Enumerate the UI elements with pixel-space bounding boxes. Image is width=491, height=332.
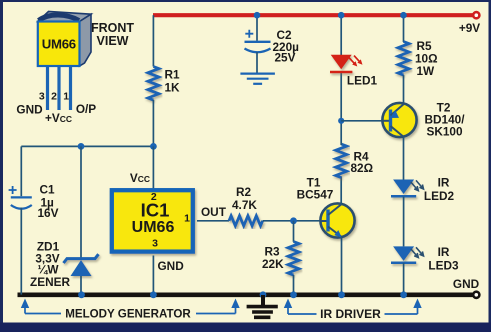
svg-text:FRONT: FRONT xyxy=(91,21,134,35)
node ZD1 top xyxy=(78,143,85,150)
ground symbol C2 xyxy=(240,74,275,84)
wire IC1 GND xyxy=(152,256,154,295)
svg-text:GND: GND xyxy=(453,277,480,291)
transistor T2 BD140/SK100 xyxy=(382,103,416,137)
svg-text:1: 1 xyxy=(184,213,190,225)
wire R1 to node xyxy=(152,100,154,146)
wire C1 bottom xyxy=(20,208,22,295)
node R3 ground xyxy=(290,291,297,298)
zener diode ZD1 xyxy=(64,254,99,276)
svg-text:2: 2 xyxy=(51,91,57,103)
package top face xyxy=(38,12,91,22)
node ZD1 ground xyxy=(78,291,85,298)
wire C1 top xyxy=(20,146,22,196)
svg-text:O/P: O/P xyxy=(76,102,96,116)
svg-text:82Ω: 82Ω xyxy=(351,161,374,175)
node C2 rail xyxy=(254,12,261,19)
wire ZD1 bottom xyxy=(80,276,82,295)
wire R5 to rail xyxy=(403,15,405,42)
wire R3 top xyxy=(293,221,295,242)
svg-text:UM66: UM66 xyxy=(42,37,76,52)
svg-text:1K: 1K xyxy=(165,81,181,95)
node R1/Vcc xyxy=(150,143,157,150)
resistor R2 xyxy=(229,216,263,226)
svg-text:IR: IR xyxy=(438,176,450,190)
node LED3 ground xyxy=(400,291,407,298)
resistor R5 xyxy=(398,42,409,76)
node IC1 ground xyxy=(150,291,157,298)
svg-text:+VCC: +VCC xyxy=(45,111,72,125)
ground symbol main xyxy=(247,291,278,317)
node T1 emitter ground xyxy=(338,291,345,298)
svg-text:3: 3 xyxy=(152,238,158,250)
svg-text:GND: GND xyxy=(158,259,185,273)
wire R2 to T1 base xyxy=(263,220,321,222)
IC U1 (IC1 UM66) xyxy=(112,190,193,251)
transistor T1 BC547 xyxy=(320,203,354,237)
capacitor C2 xyxy=(256,15,258,41)
wire R5 to T2 emitter xyxy=(403,75,405,103)
wire node to T2 base xyxy=(341,120,383,122)
GND terminal xyxy=(473,292,479,298)
LED LED1 xyxy=(330,55,363,72)
wire R3 bottom xyxy=(293,275,295,295)
ground rail xyxy=(18,292,473,297)
node R2/R3 xyxy=(290,217,297,224)
svg-text:16V: 16V xyxy=(38,206,59,220)
package right side face xyxy=(80,14,92,66)
wire R1 to rail xyxy=(152,15,154,66)
svg-text:BC547: BC547 xyxy=(297,188,334,202)
wire IC1 Vcc xyxy=(152,146,154,190)
node LED1 rail xyxy=(338,12,345,19)
svg-text:ZENER: ZENER xyxy=(30,275,70,289)
wire LED1 to rail xyxy=(340,15,342,55)
pin leg 3 xyxy=(46,66,49,110)
svg-text:LED2: LED2 xyxy=(424,189,455,203)
svg-text:22K: 22K xyxy=(262,257,284,271)
LED LED2 (IR) xyxy=(391,180,424,197)
wire LED3 to ground xyxy=(403,263,405,295)
pin leg 2 xyxy=(57,66,60,110)
pin leg 1 xyxy=(69,66,72,110)
svg-text:1W: 1W xyxy=(417,64,436,78)
+9V supply rail xyxy=(153,13,473,17)
svg-text:LED3: LED3 xyxy=(428,259,459,273)
svg-text:UM66: UM66 xyxy=(132,219,175,236)
svg-text:4.7K: 4.7K xyxy=(232,198,257,212)
svg-text:1: 1 xyxy=(63,91,69,103)
svg-text:VCC: VCC xyxy=(130,171,150,185)
node R5 rail xyxy=(400,12,407,19)
wire T1 collector to R4 xyxy=(340,177,342,205)
svg-text:IR DRIVER: IR DRIVER xyxy=(320,307,381,321)
svg-text:LED1: LED1 xyxy=(347,74,378,88)
svg-text:IR: IR xyxy=(438,245,450,259)
+9V terminal xyxy=(473,12,479,18)
svg-text:OUT: OUT xyxy=(201,205,227,219)
svg-text:2: 2 xyxy=(151,191,157,203)
node LED1/R4/T2 base xyxy=(338,118,344,124)
capacitor C1 xyxy=(9,186,32,209)
wire T1 emitter to ground xyxy=(341,237,343,295)
svg-text:25V: 25V xyxy=(275,51,296,65)
resistor R4 xyxy=(336,144,347,178)
svg-text:VIEW: VIEW xyxy=(97,34,129,48)
IR driver dimension arrows xyxy=(284,299,422,315)
svg-text:SK100: SK100 xyxy=(426,125,463,139)
svg-text:+9V: +9V xyxy=(459,21,480,35)
package front face xyxy=(38,22,80,67)
wire LED2 to LED3 xyxy=(403,197,405,247)
wire T2 collector to LED2 xyxy=(403,137,405,180)
svg-text:C1: C1 xyxy=(40,183,56,197)
svg-text:3: 3 xyxy=(39,91,45,103)
wire OUT xyxy=(197,220,229,222)
svg-text:R2: R2 xyxy=(236,185,252,199)
svg-text:MELODY GENERATOR: MELODY GENERATOR xyxy=(65,308,191,321)
wire ZD1 top xyxy=(80,146,82,258)
wire LED1 to R4 xyxy=(340,72,342,145)
wire C2 to ground symbol xyxy=(256,52,258,73)
svg-text:GND: GND xyxy=(16,103,43,117)
LED LED3 (IR) xyxy=(391,246,424,262)
melody generator dimension arrows xyxy=(21,299,240,314)
svg-text:R1: R1 xyxy=(165,68,181,82)
UM66 package front view illustration xyxy=(38,12,91,67)
resistor R1 xyxy=(148,67,159,101)
resistor R3 xyxy=(288,242,299,276)
wire horizontal Vcc bus xyxy=(21,145,153,147)
